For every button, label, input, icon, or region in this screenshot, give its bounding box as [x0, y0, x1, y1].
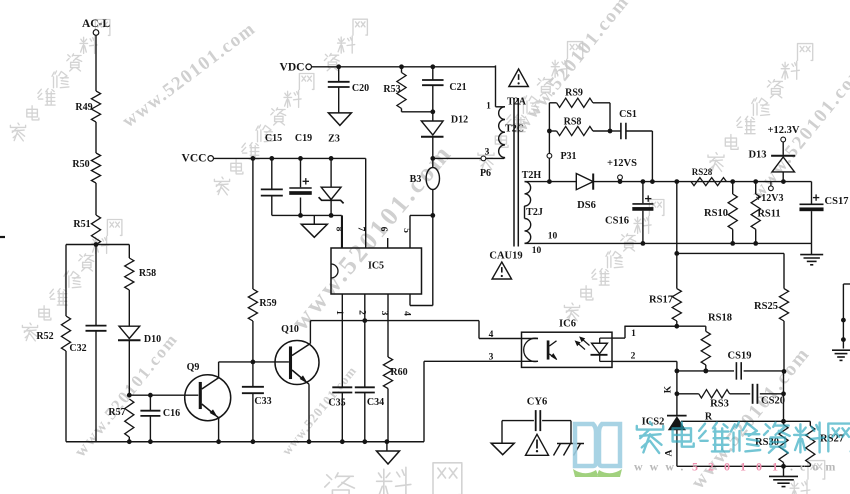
svg-text:C20: C20	[352, 83, 369, 94]
pin P31	[547, 153, 552, 158]
ground symbol C20	[328, 113, 351, 126]
capacitor C20	[338, 67, 340, 82]
wire to P6 / T2 pin3	[433, 157, 504, 159]
wire +12VS to RS17	[676, 182, 678, 289]
svg-text:IC6: IC6	[559, 319, 576, 330]
resistor RS18	[705, 326, 707, 331]
capacitor C35	[332, 386, 352, 388]
svg-text:R59: R59	[259, 298, 276, 309]
svg-text:IC5: IC5	[368, 261, 384, 272]
svg-text:C34: C34	[367, 397, 384, 408]
transformer T2 primary winding T2C	[495, 65, 497, 106]
svg-text:4: 4	[489, 330, 494, 340]
wire VDC rail	[312, 66, 496, 68]
wire IC5 pin4 loop	[432, 215, 434, 305]
svg-text:R49: R49	[75, 102, 92, 113]
svg-text:RS10: RS10	[704, 208, 728, 219]
wire opto pin1 node	[624, 325, 705, 327]
resistor RS10	[732, 182, 734, 194]
wire IC6 pin2 to K node	[612, 360, 677, 362]
resistor RS28	[691, 178, 727, 186]
svg-text:C21: C21	[449, 82, 466, 93]
inductor B3	[432, 158, 434, 167]
svg-text:ICS2: ICS2	[642, 417, 665, 428]
wire	[95, 183, 97, 215]
wire far right stub	[843, 283, 850, 285]
wire caps common	[272, 214, 342, 216]
svg-text:10: 10	[548, 232, 558, 242]
svg-text:RS28: RS28	[692, 167, 713, 177]
svg-text:D13: D13	[748, 150, 766, 161]
resistor R59	[252, 158, 254, 289]
svg-text:RS8: RS8	[564, 117, 582, 128]
logo book icon	[575, 424, 620, 466]
resistor RS27	[809, 421, 811, 426]
capacitor CS17	[811, 182, 813, 204]
svg-text:RS9: RS9	[565, 88, 583, 99]
svg-text:520101: 520101	[692, 460, 788, 474]
resistor RS25	[779, 289, 788, 321]
svg-text:www.: www.	[634, 460, 690, 474]
svg-text:.com: .com	[790, 460, 842, 474]
svg-text:+12VS: +12VS	[607, 158, 637, 169]
svg-text:B3: B3	[410, 174, 422, 185]
svg-text:5: 5	[401, 228, 411, 233]
ground symbol under rail	[386, 442, 388, 451]
ground symbol CS17	[811, 243, 813, 254]
IC6 phototransistor	[522, 338, 539, 340]
op-amp IC5 box	[331, 248, 422, 294]
safety triangle CY6	[526, 434, 549, 455]
wire IC5 pin5	[410, 214, 433, 216]
wire	[95, 35, 97, 91]
svg-text:K: K	[663, 385, 673, 393]
resistor R60	[383, 357, 392, 389]
capacitor CS16	[642, 182, 644, 204]
wire IC5 pin2	[364, 294, 366, 388]
svg-text:CS19: CS19	[728, 351, 752, 362]
svg-text:+12V3: +12V3	[756, 193, 784, 204]
svg-text:1: 1	[334, 310, 344, 315]
svg-text:RS11: RS11	[757, 209, 780, 220]
svg-text:A: A	[665, 449, 675, 456]
transformer secondary winding T2H	[525, 182, 531, 206]
wire IC5 lower rail to IC6	[310, 320, 479, 322]
svg-text:R58: R58	[139, 268, 156, 279]
svg-text:CY6: CY6	[527, 397, 547, 408]
resistor RS11	[755, 182, 757, 194]
svg-text:CS17: CS17	[825, 196, 849, 207]
wire branch to RS25	[677, 252, 784, 254]
resistor RS8	[549, 130, 556, 132]
wire IC5 pin6 stub	[387, 238, 389, 248]
svg-text:2: 2	[631, 352, 636, 362]
capacitor CS19	[735, 362, 737, 380]
warning triangle CAU19	[492, 262, 512, 279]
svg-text:C15: C15	[265, 133, 282, 144]
wire IC5 pin8	[341, 215, 343, 248]
wire ground rail to IC6 pin3	[423, 361, 425, 441]
wire	[66, 244, 129, 246]
left edge tick	[0, 236, 5, 238]
capacitor C16	[148, 393, 153, 398]
vertical node line RS25/CS20/R	[783, 371, 785, 424]
diode D10	[119, 326, 140, 338]
svg-text:P31: P31	[560, 151, 576, 162]
capacitor C34	[355, 386, 375, 388]
svg-text:R57: R57	[108, 407, 125, 418]
svg-text:C33: C33	[254, 396, 271, 407]
svg-text:4: 4	[402, 311, 412, 316]
resistor RS17	[672, 289, 681, 321]
transformer core	[513, 98, 515, 247]
svg-text:RS17: RS17	[649, 295, 673, 306]
diode DS6	[576, 174, 593, 190]
wire Q9 collector to Q10 base	[219, 361, 289, 363]
svg-text:C19: C19	[295, 133, 312, 144]
svg-text:RS25: RS25	[754, 301, 778, 312]
pin P6	[481, 156, 486, 161]
svg-text:10: 10	[532, 246, 542, 256]
diode D12	[432, 112, 434, 121]
svg-text:T2A: T2A	[507, 97, 527, 108]
svg-text:1: 1	[631, 329, 636, 339]
svg-text:6: 6	[378, 227, 388, 232]
svg-text:T2J: T2J	[526, 207, 543, 218]
logo text jiadianweixiuziliaowang	[637, 422, 663, 453]
svg-text:P6: P6	[480, 168, 491, 179]
ground symbol CY6 left	[501, 421, 503, 444]
svg-text:3: 3	[489, 353, 494, 363]
wire IC5 pin1	[341, 294, 343, 388]
node +12VS	[618, 175, 623, 180]
wire T2H to DS6 rail	[525, 181, 577, 183]
warning triangle T2A	[509, 69, 528, 87]
wire VCC rail	[214, 157, 366, 159]
svg-text:R60: R60	[390, 367, 407, 378]
snubber RS9	[548, 103, 550, 182]
svg-text:T2H: T2H	[522, 170, 542, 181]
svg-text:C32: C32	[69, 343, 86, 354]
svg-text:C16: C16	[163, 408, 180, 419]
svg-text:D10: D10	[144, 334, 161, 345]
resistor R58	[128, 245, 130, 259]
resistor R52	[65, 245, 67, 317]
wire IC6 pin1	[612, 337, 625, 339]
capacitor C33	[252, 362, 254, 387]
svg-text:VDC: VDC	[280, 62, 305, 74]
svg-text:AC-L: AC-L	[82, 18, 110, 30]
svg-text:CAU19: CAU19	[489, 251, 522, 262]
svg-text:1: 1	[486, 102, 491, 112]
IC6 light arrows	[577, 343, 585, 350]
svg-text:D12: D12	[451, 115, 468, 126]
node +12V3	[770, 182, 772, 186]
shunt regulator ICS2	[667, 415, 687, 417]
ground symbol RS30	[783, 466, 785, 476]
optocoupler IC6 box	[522, 332, 613, 367]
svg-text:7: 7	[356, 227, 366, 232]
svg-text:3: 3	[485, 148, 490, 158]
IC6 led	[600, 337, 612, 339]
svg-text:R50: R50	[72, 159, 89, 170]
svg-text:RS3: RS3	[710, 399, 729, 410]
svg-text:C35: C35	[328, 398, 345, 409]
svg-text:RS18: RS18	[708, 313, 732, 324]
capacitor C21	[432, 67, 434, 80]
svg-text:Q9: Q9	[187, 362, 200, 373]
wire K rail with CS19	[677, 370, 734, 372]
svg-text:8: 8	[334, 227, 344, 232]
ground symbol far right	[832, 349, 850, 351]
wire secondary return rail	[525, 242, 812, 244]
capacitor CS1	[610, 130, 621, 132]
transformer secondary winding T2J	[525, 218, 531, 243]
resistor RS3	[677, 393, 699, 395]
svg-text:CS1: CS1	[619, 109, 637, 120]
svg-text:R51: R51	[73, 219, 90, 230]
wire IC5 pin7 VCC	[365, 158, 367, 248]
svg-text:+12.3V: +12.3V	[768, 125, 800, 136]
wire IC5 pin3	[387, 294, 389, 357]
capacitor C32	[95, 245, 97, 326]
svg-text:R52: R52	[36, 331, 53, 342]
svg-text:2: 2	[357, 310, 367, 315]
svg-text:www.520101.com: www.520101.com	[118, 18, 260, 132]
svg-text:CS20: CS20	[761, 396, 785, 407]
wire	[95, 122, 97, 153]
capacitor CS20	[730, 393, 751, 395]
chassis ground CY6 right	[570, 421, 572, 444]
ground symbol VCC caps	[313, 215, 315, 224]
wire ICS2 anode rail	[677, 465, 810, 467]
resistor RS30	[779, 425, 788, 463]
svg-text:3: 3	[379, 311, 389, 316]
svg-text:Z3: Z3	[328, 134, 340, 145]
svg-text:CS16: CS16	[605, 216, 629, 227]
svg-text:Q10: Q10	[281, 324, 299, 335]
svg-text:www.520101.com: www.520101.com	[512, 0, 634, 135]
ground rail bottom left	[66, 441, 424, 443]
svg-text:RS27: RS27	[820, 434, 844, 445]
wire Q9 base	[129, 394, 198, 396]
svg-text:DS6: DS6	[577, 200, 596, 211]
svg-text:VCC: VCC	[182, 153, 207, 165]
